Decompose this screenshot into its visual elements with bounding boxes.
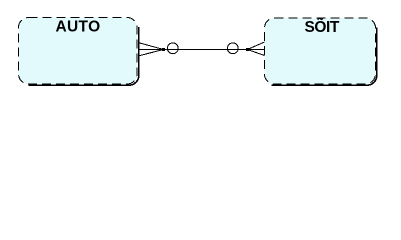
wire relationship line AUTO-SOIT bbox=[138, 49, 265, 51]
crow's foot at SOIT (many), top prong bbox=[248, 42, 265, 50]
entity AUTO shadow bbox=[29, 27, 139, 85]
crow's foot apex square right bbox=[246, 48, 249, 51]
svg-text:SÕIT: SÕIT bbox=[305, 18, 340, 36]
entity AUTO box bbox=[19, 18, 138, 85]
crow's foot at SOIT (many), bottom prong bbox=[248, 50, 265, 56]
optionality circle right bbox=[227, 43, 238, 54]
svg-text:AUTO: AUTO bbox=[55, 19, 100, 36]
optionality circle left bbox=[167, 43, 178, 54]
crow's foot apex square left bbox=[162, 48, 165, 51]
entity SOIT shadow bbox=[272, 28, 377, 86]
entity SOIT box bbox=[265, 18, 376, 84]
crow's foot at AUTO (many), top prong bbox=[138, 43, 164, 50]
crow's foot at AUTO (many), bottom prong bbox=[138, 50, 164, 57]
